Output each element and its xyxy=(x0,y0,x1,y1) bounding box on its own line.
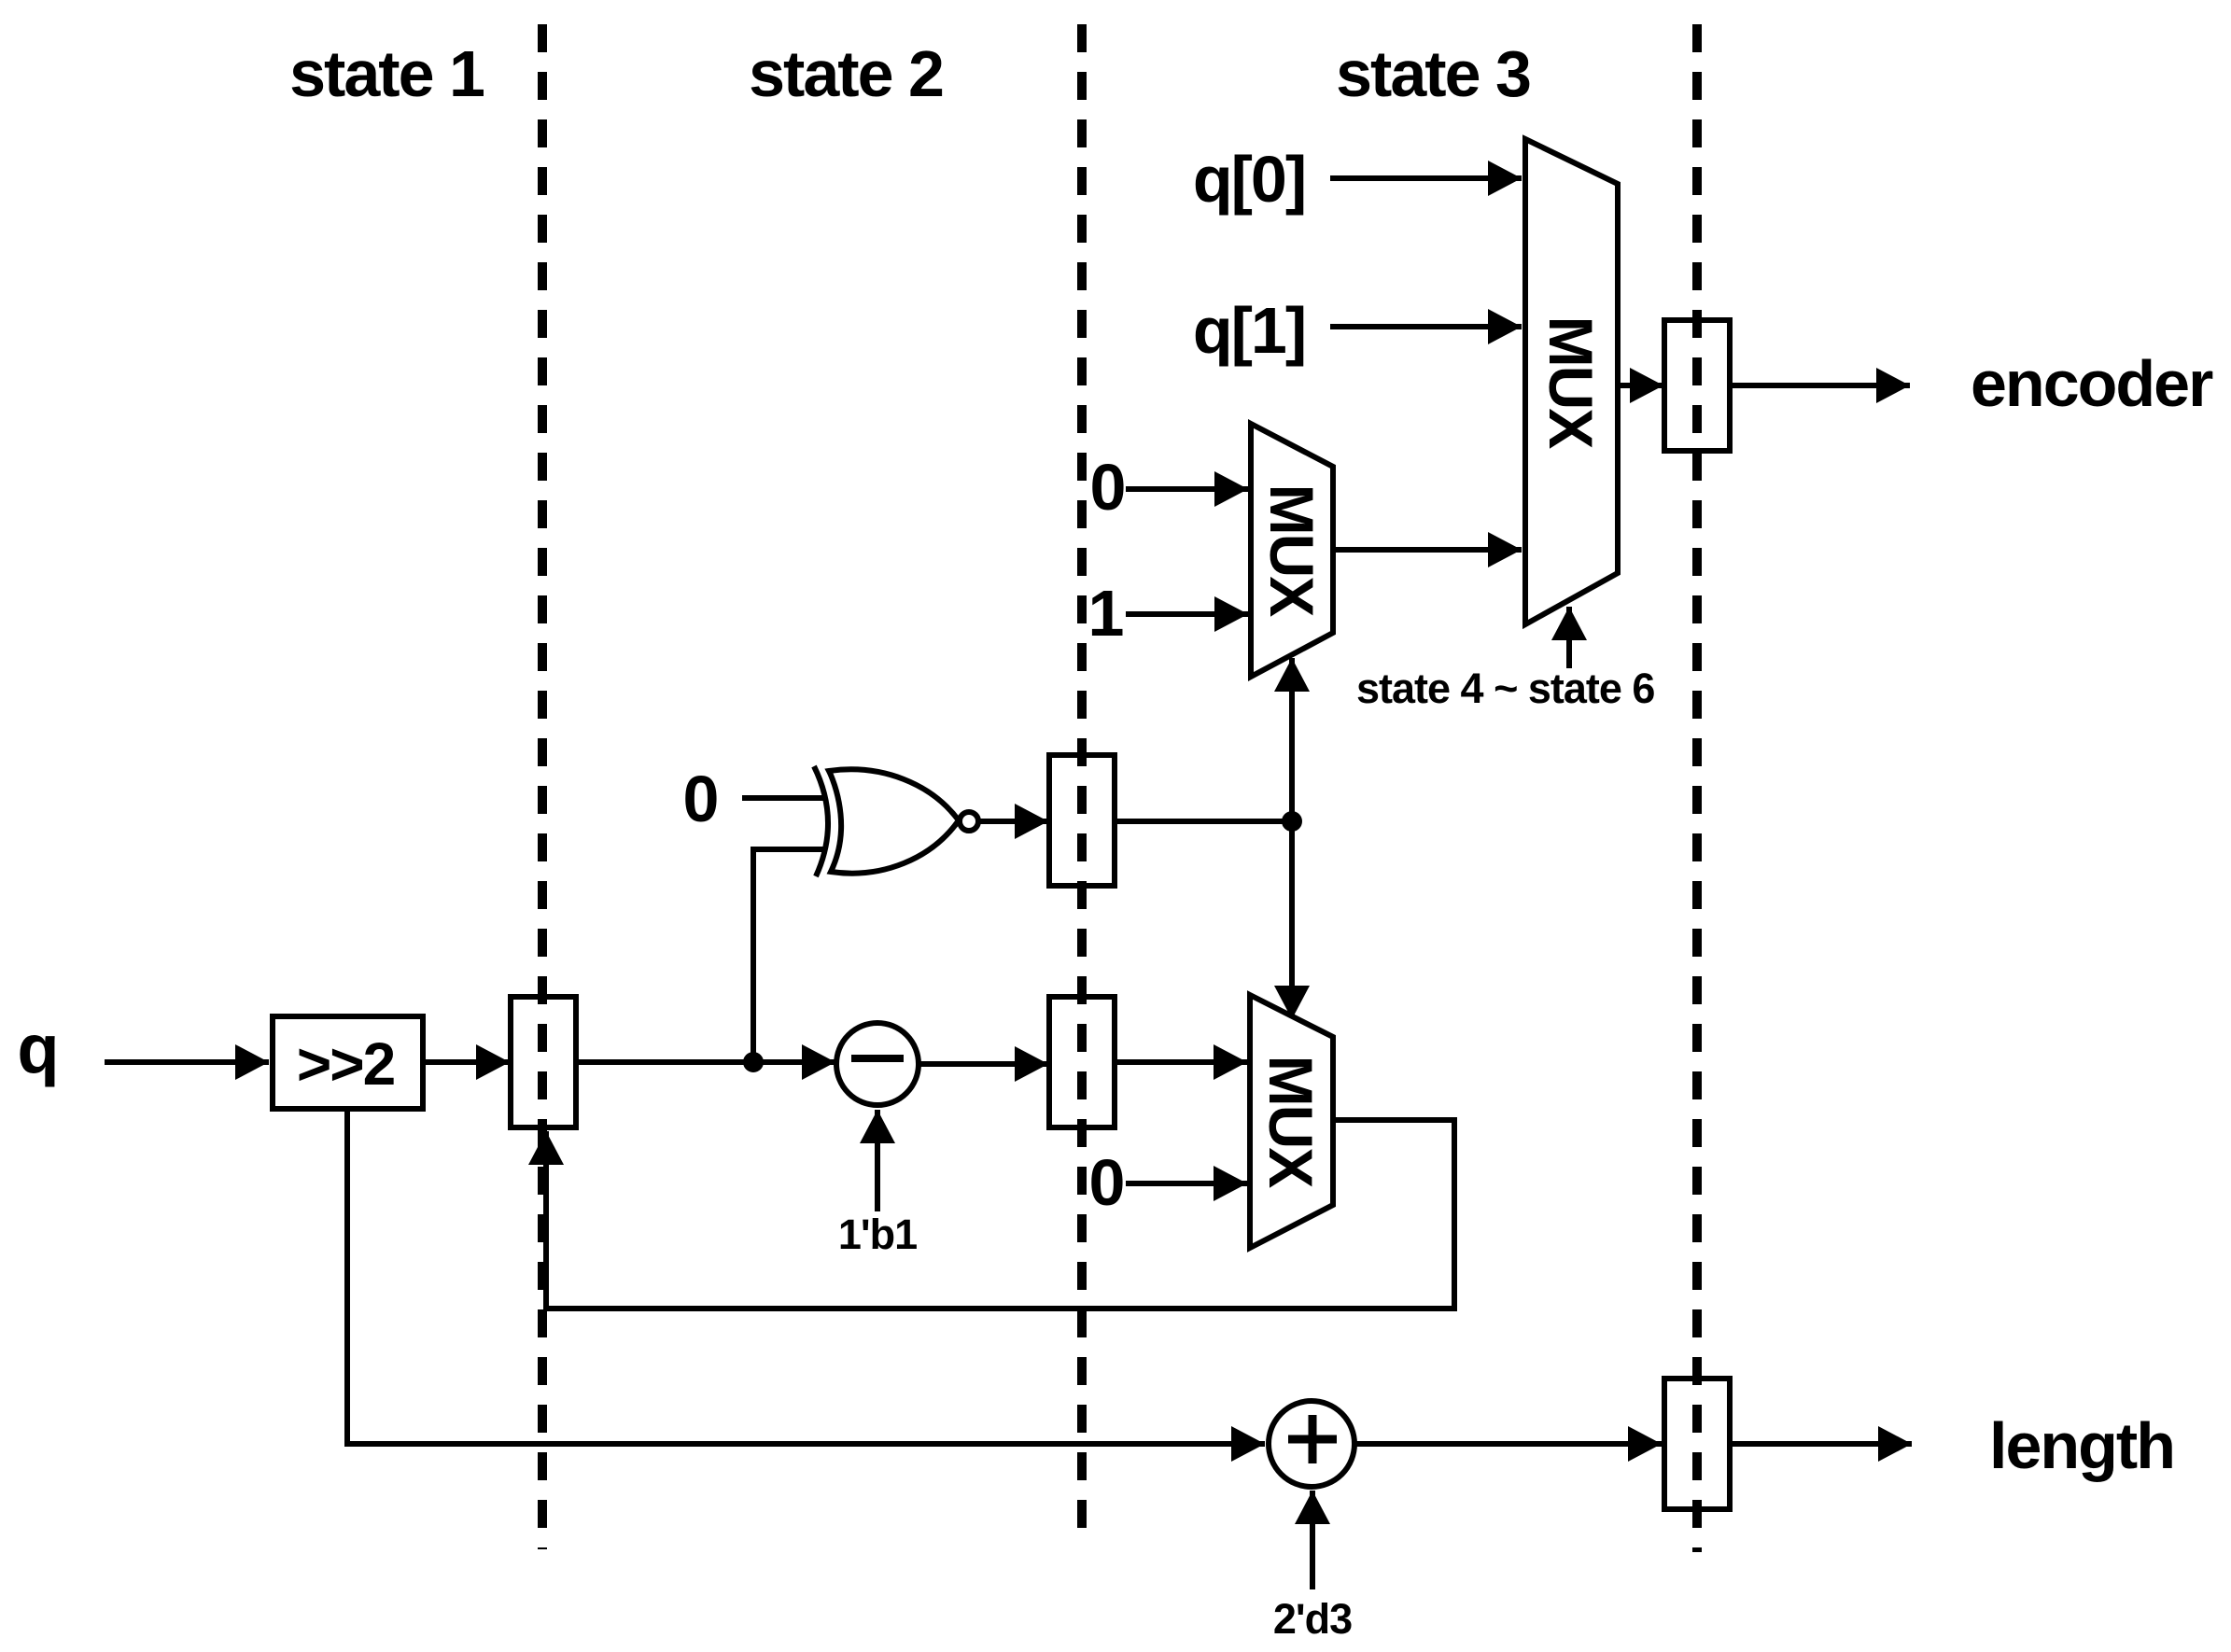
svg-text:>>2: >>2 xyxy=(297,1030,395,1098)
svg-text:MUX: MUX xyxy=(1256,1056,1326,1189)
wire 0 to small MUX xyxy=(1126,486,1248,492)
svg-text:1: 1 xyxy=(1088,577,1123,650)
XNOR gate xyxy=(814,766,978,876)
state boundary dashed line 3 xyxy=(1692,24,1702,1552)
wire 1 to small MUX xyxy=(1126,611,1248,617)
wire shifter to register R1 xyxy=(423,1059,510,1065)
wire 2'd3 to adder xyxy=(1310,1491,1315,1589)
wire R2 to bottom MUX xyxy=(1115,1059,1247,1065)
svg-text:q: q xyxy=(17,1010,57,1087)
svg-text:0: 0 xyxy=(683,763,718,835)
node select junction xyxy=(1282,811,1302,832)
svg-text:length: length xyxy=(1989,1409,2174,1482)
bottom MUX U3 xyxy=(1250,995,1333,1248)
register R5 (length output boundary) xyxy=(1664,1379,1730,1509)
wire R1 to subtractor xyxy=(576,1059,835,1065)
svg-text:state 4 ~ state 6: state 4 ~ state 6 xyxy=(1356,665,1654,712)
svg-text:0: 0 xyxy=(1089,1146,1124,1219)
wire adder to register R5 xyxy=(1354,1441,1662,1447)
wire big MUX select arrow xyxy=(1566,607,1572,668)
wire subtractor to register R2 xyxy=(919,1061,1048,1067)
svg-text:state 3: state 3 xyxy=(1336,37,1530,110)
svg-text:MUX: MUX xyxy=(1257,484,1326,618)
wire R3 to select junction xyxy=(1115,819,1292,824)
small MUX U2 xyxy=(1251,424,1333,677)
wire branch up to XNOR input xyxy=(753,849,827,1062)
svg-text:1'b1: 1'b1 xyxy=(838,1211,917,1258)
svg-text:q[1]: q[1] xyxy=(1193,294,1305,367)
wire q to shifter xyxy=(105,1059,269,1065)
wire R5 to length xyxy=(1730,1441,1912,1447)
adder circle xyxy=(1269,1401,1354,1487)
wire small MUX to big MUX xyxy=(1333,547,1522,553)
svg-text:MUX: MUX xyxy=(1536,316,1606,450)
wire big MUX to register R4 xyxy=(1618,383,1663,388)
wire q[0] to big MUX xyxy=(1330,175,1522,181)
wire R4 to encoder xyxy=(1730,383,1910,388)
register R3 (state2/state3 boundary, xnor path) xyxy=(1049,755,1115,886)
wire select down to bottom MUX xyxy=(1289,821,1295,1019)
node junction on R1 output xyxy=(743,1052,764,1072)
wire XNOR to register R3 xyxy=(979,819,1048,824)
wire select up to small MUX xyxy=(1289,658,1295,821)
wire 1'b1 to subtractor xyxy=(875,1110,880,1211)
wire 0 to XNOR xyxy=(742,795,827,801)
wire feedback bottom MUX to R1 xyxy=(546,1120,1454,1309)
svg-text:q[0]: q[0] xyxy=(1193,143,1305,216)
register R4 (state3 output boundary) xyxy=(1664,320,1730,451)
svg-text:0: 0 xyxy=(1090,451,1125,524)
svg-text:2'd3: 2'd3 xyxy=(1273,1595,1352,1643)
subtractor circle xyxy=(836,1023,919,1105)
register R1 (state1/state2 boundary) xyxy=(511,997,576,1127)
svg-text:state 1: state 1 xyxy=(289,37,484,110)
state boundary dashed line 2 xyxy=(1077,24,1087,1542)
svg-text:encoder: encoder xyxy=(1971,347,2213,420)
big MUX U1 xyxy=(1525,139,1618,624)
wire 0 to bottom MUX xyxy=(1126,1181,1247,1186)
svg-text:state 2: state 2 xyxy=(749,37,943,110)
wire shifter down to adder xyxy=(347,1109,1265,1444)
shifter >>2 box xyxy=(273,1016,423,1109)
register R2 (state2/state3 boundary, data path) xyxy=(1049,997,1115,1127)
wire q[1] to big MUX xyxy=(1330,324,1522,329)
state boundary dashed line 1 xyxy=(538,24,547,1549)
